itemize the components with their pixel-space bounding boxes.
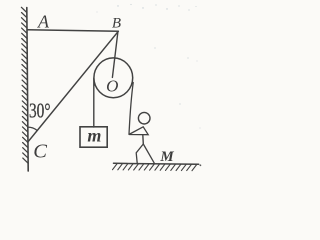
svg-text:M: M bbox=[159, 149, 174, 165]
ground bbox=[114, 163, 199, 164]
svg-text:O: O bbox=[106, 76, 118, 95]
wall hatching bbox=[21, 7, 28, 163]
svg-text:m: m bbox=[87, 125, 101, 145]
man arms triangle bbox=[129, 127, 148, 135]
man head bbox=[138, 112, 150, 124]
svg-text:B: B bbox=[112, 16, 121, 32]
svg-text:A: A bbox=[37, 11, 50, 31]
dot at end of ground line bbox=[200, 164, 202, 166]
pulley wheel bbox=[94, 58, 133, 98]
strut CB bbox=[28, 31, 119, 142]
svg-text:30°: 30° bbox=[29, 99, 51, 123]
rope to mass m bbox=[93, 79, 95, 128]
svg-text:C: C bbox=[33, 140, 47, 162]
man right leg bbox=[143, 144, 154, 163]
man torso bbox=[142, 135, 145, 144]
pulley axle from B to O bbox=[112, 32, 118, 78]
rope to man bbox=[129, 83, 133, 135]
faint scan speckles bbox=[97, 4, 201, 129]
angle arc at C bbox=[28, 127, 37, 130]
beam AB bbox=[27, 30, 118, 32]
mass box bbox=[80, 127, 107, 147]
ground hatching bbox=[113, 164, 197, 171]
wall bbox=[27, 8, 28, 172]
man left leg bbox=[136, 144, 143, 163]
